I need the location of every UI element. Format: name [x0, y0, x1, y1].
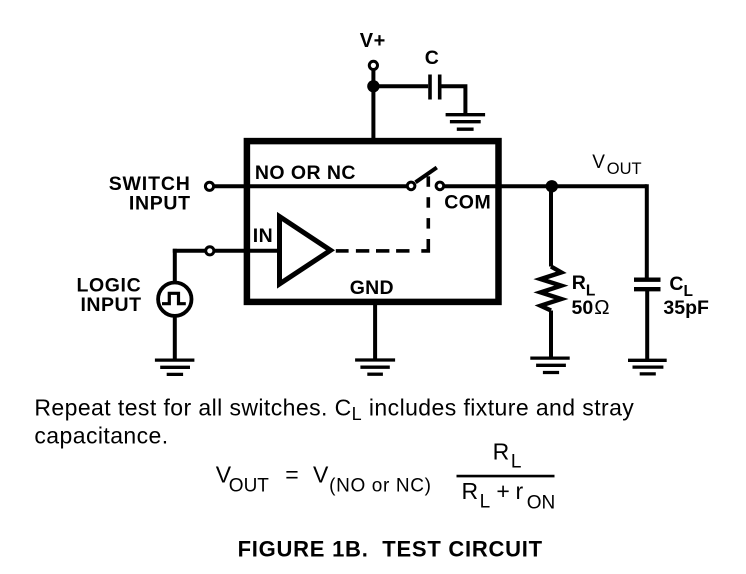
- svg-text:r: r: [516, 478, 524, 504]
- capacitor CL: [634, 280, 661, 290]
- svg-text:(NO or NC): (NO or NC): [329, 476, 432, 497]
- wire VOUT to CL: [645, 184, 649, 277]
- svg-text:capacitance.: capacitance.: [34, 423, 168, 449]
- svg-text:ON: ON: [527, 493, 556, 514]
- junction V+: [367, 80, 379, 92]
- svg-text:L: L: [480, 492, 491, 513]
- node VOUT junction: [546, 180, 558, 192]
- svg-text:L: L: [511, 452, 522, 473]
- svg-text:C: C: [425, 47, 439, 69]
- wire CL to ground: [645, 291, 649, 359]
- svg-text:NO OR NC: NO OR NC: [255, 162, 356, 184]
- terminal SWITCH INPUT: [205, 182, 213, 190]
- wire C to ground: [442, 86, 466, 113]
- source LOGIC pulse: [158, 283, 191, 316]
- svg-text:R: R: [462, 478, 479, 504]
- svg-text:=: =: [285, 462, 298, 488]
- svg-text:RL: RL: [572, 272, 596, 299]
- ground (CL): [628, 360, 667, 374]
- dashed wire buffer to switch: [336, 176, 429, 251]
- svg-text:IN: IN: [253, 225, 274, 247]
- svg-text:OUT: OUT: [607, 160, 642, 178]
- svg-text:Repeat test for all switches.: Repeat test for all switches. CL include…: [34, 395, 634, 425]
- resistor RL zigzag: [541, 267, 562, 311]
- wire V+ to box: [371, 70, 375, 141]
- svg-text:INPUT: INPUT: [81, 294, 142, 316]
- svg-text:FIGURE 1B. TEST CIRCUIT: FIGURE 1B. TEST CIRCUIT: [238, 537, 543, 562]
- chip box U1: [247, 141, 499, 302]
- ground (LOGIC): [155, 360, 195, 374]
- svg-text:CL: CL: [669, 273, 693, 300]
- svg-text:V+: V+: [360, 30, 386, 52]
- terminal V+: [369, 61, 377, 69]
- terminal LOGIC INPUT: [206, 247, 214, 255]
- wire terminal to buffer: [214, 249, 279, 253]
- ground (RL): [530, 358, 569, 372]
- svg-text:COM: COM: [444, 192, 491, 214]
- svg-text:OUT: OUT: [229, 475, 269, 496]
- ground (GND): [355, 360, 395, 374]
- svg-text:50Ω: 50Ω: [572, 296, 610, 319]
- equation VOUT: [216, 438, 555, 513]
- wire COM to VOUT corner: [444, 184, 646, 188]
- svg-text:V: V: [592, 152, 605, 173]
- ground (C): [446, 115, 486, 130]
- svg-text:V: V: [313, 462, 329, 488]
- op-amp buffer A1: [280, 217, 331, 285]
- wire LOGIC INPUT corner to terminal: [173, 249, 206, 253]
- svg-text:INPUT: INPUT: [129, 192, 191, 214]
- wire SWITCH INPUT to switch: [214, 184, 407, 188]
- wire GND pin: [373, 302, 377, 359]
- svg-text:R: R: [493, 438, 510, 464]
- wire junction to C: [373, 84, 428, 88]
- switch S1: [407, 168, 443, 190]
- wire VOUT junction to RL: [549, 190, 553, 267]
- wire corner to pulse source: [173, 249, 177, 283]
- svg-text:35pF: 35pF: [663, 297, 709, 319]
- capacitor C: [430, 75, 440, 100]
- wire pulse source to ground: [173, 316, 177, 359]
- svg-text:GND: GND: [350, 277, 394, 299]
- wire RL to ground: [549, 311, 553, 357]
- svg-text:+: +: [496, 478, 509, 504]
